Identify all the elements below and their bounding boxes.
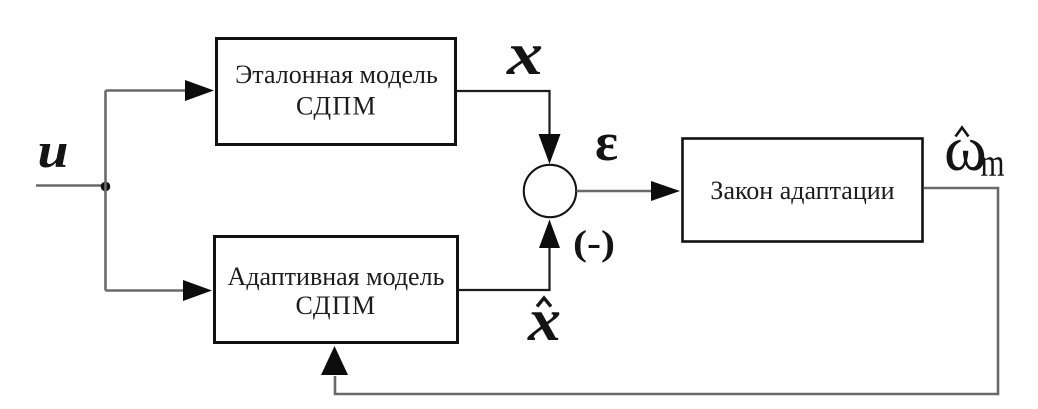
wire: feedback from adaptation law output around to adaptive model	[335, 188, 998, 394]
arrowhead into reference model	[185, 80, 214, 101]
label: reference state x	[506, 21, 543, 87]
block: adaptation law box	[683, 139, 923, 242]
label: error epsilon	[595, 112, 618, 172]
wire: vertical branch from junction	[104, 91, 107, 291]
svg-text:(-): (-)	[573, 223, 615, 263]
arrowhead down into summing junction top	[539, 134, 561, 164]
svg-text:СДПМ: СДПМ	[296, 291, 377, 320]
node: junction dot on u line	[101, 182, 111, 192]
arrowhead into adaptive model	[183, 280, 212, 301]
block: adaptive model box	[215, 237, 458, 343]
label: input u	[38, 122, 69, 178]
arrowhead into adaptation law	[651, 181, 680, 201]
arrowhead up into adaptive model bottom	[321, 346, 348, 375]
label: minus sign (-)	[573, 223, 615, 263]
svg-text:СДПМ: СДПМ	[296, 92, 377, 121]
svg-text:x: x	[506, 21, 543, 87]
arrowhead up into summing junction bottom	[539, 220, 560, 249]
svg-text:m: m	[981, 142, 1005, 185]
svg-text:Закон адаптации: Закон адаптации	[710, 176, 894, 205]
svg-text:u: u	[38, 122, 69, 178]
wire: adaptive model output to summing junction	[458, 247, 550, 290]
wire: input u horizontal segment	[36, 184, 105, 187]
svg-text:Адаптивная модель: Адаптивная модель	[228, 262, 445, 291]
wire: reference model output to summing junction	[456, 91, 550, 135]
svg-text:Эталонная модель: Эталонная модель	[235, 60, 438, 89]
block: reference model box	[217, 39, 456, 145]
wire: branch to reference model input	[106, 89, 188, 92]
summing junction circle	[524, 165, 576, 217]
svg-text:ε: ε	[595, 112, 618, 172]
label: estimated state x hat	[527, 287, 561, 353]
wire: summing junction output to adaptation law	[577, 190, 653, 193]
label: estimated speed omega hat m	[944, 113, 1005, 185]
wire: branch to adaptive model input	[106, 289, 186, 292]
